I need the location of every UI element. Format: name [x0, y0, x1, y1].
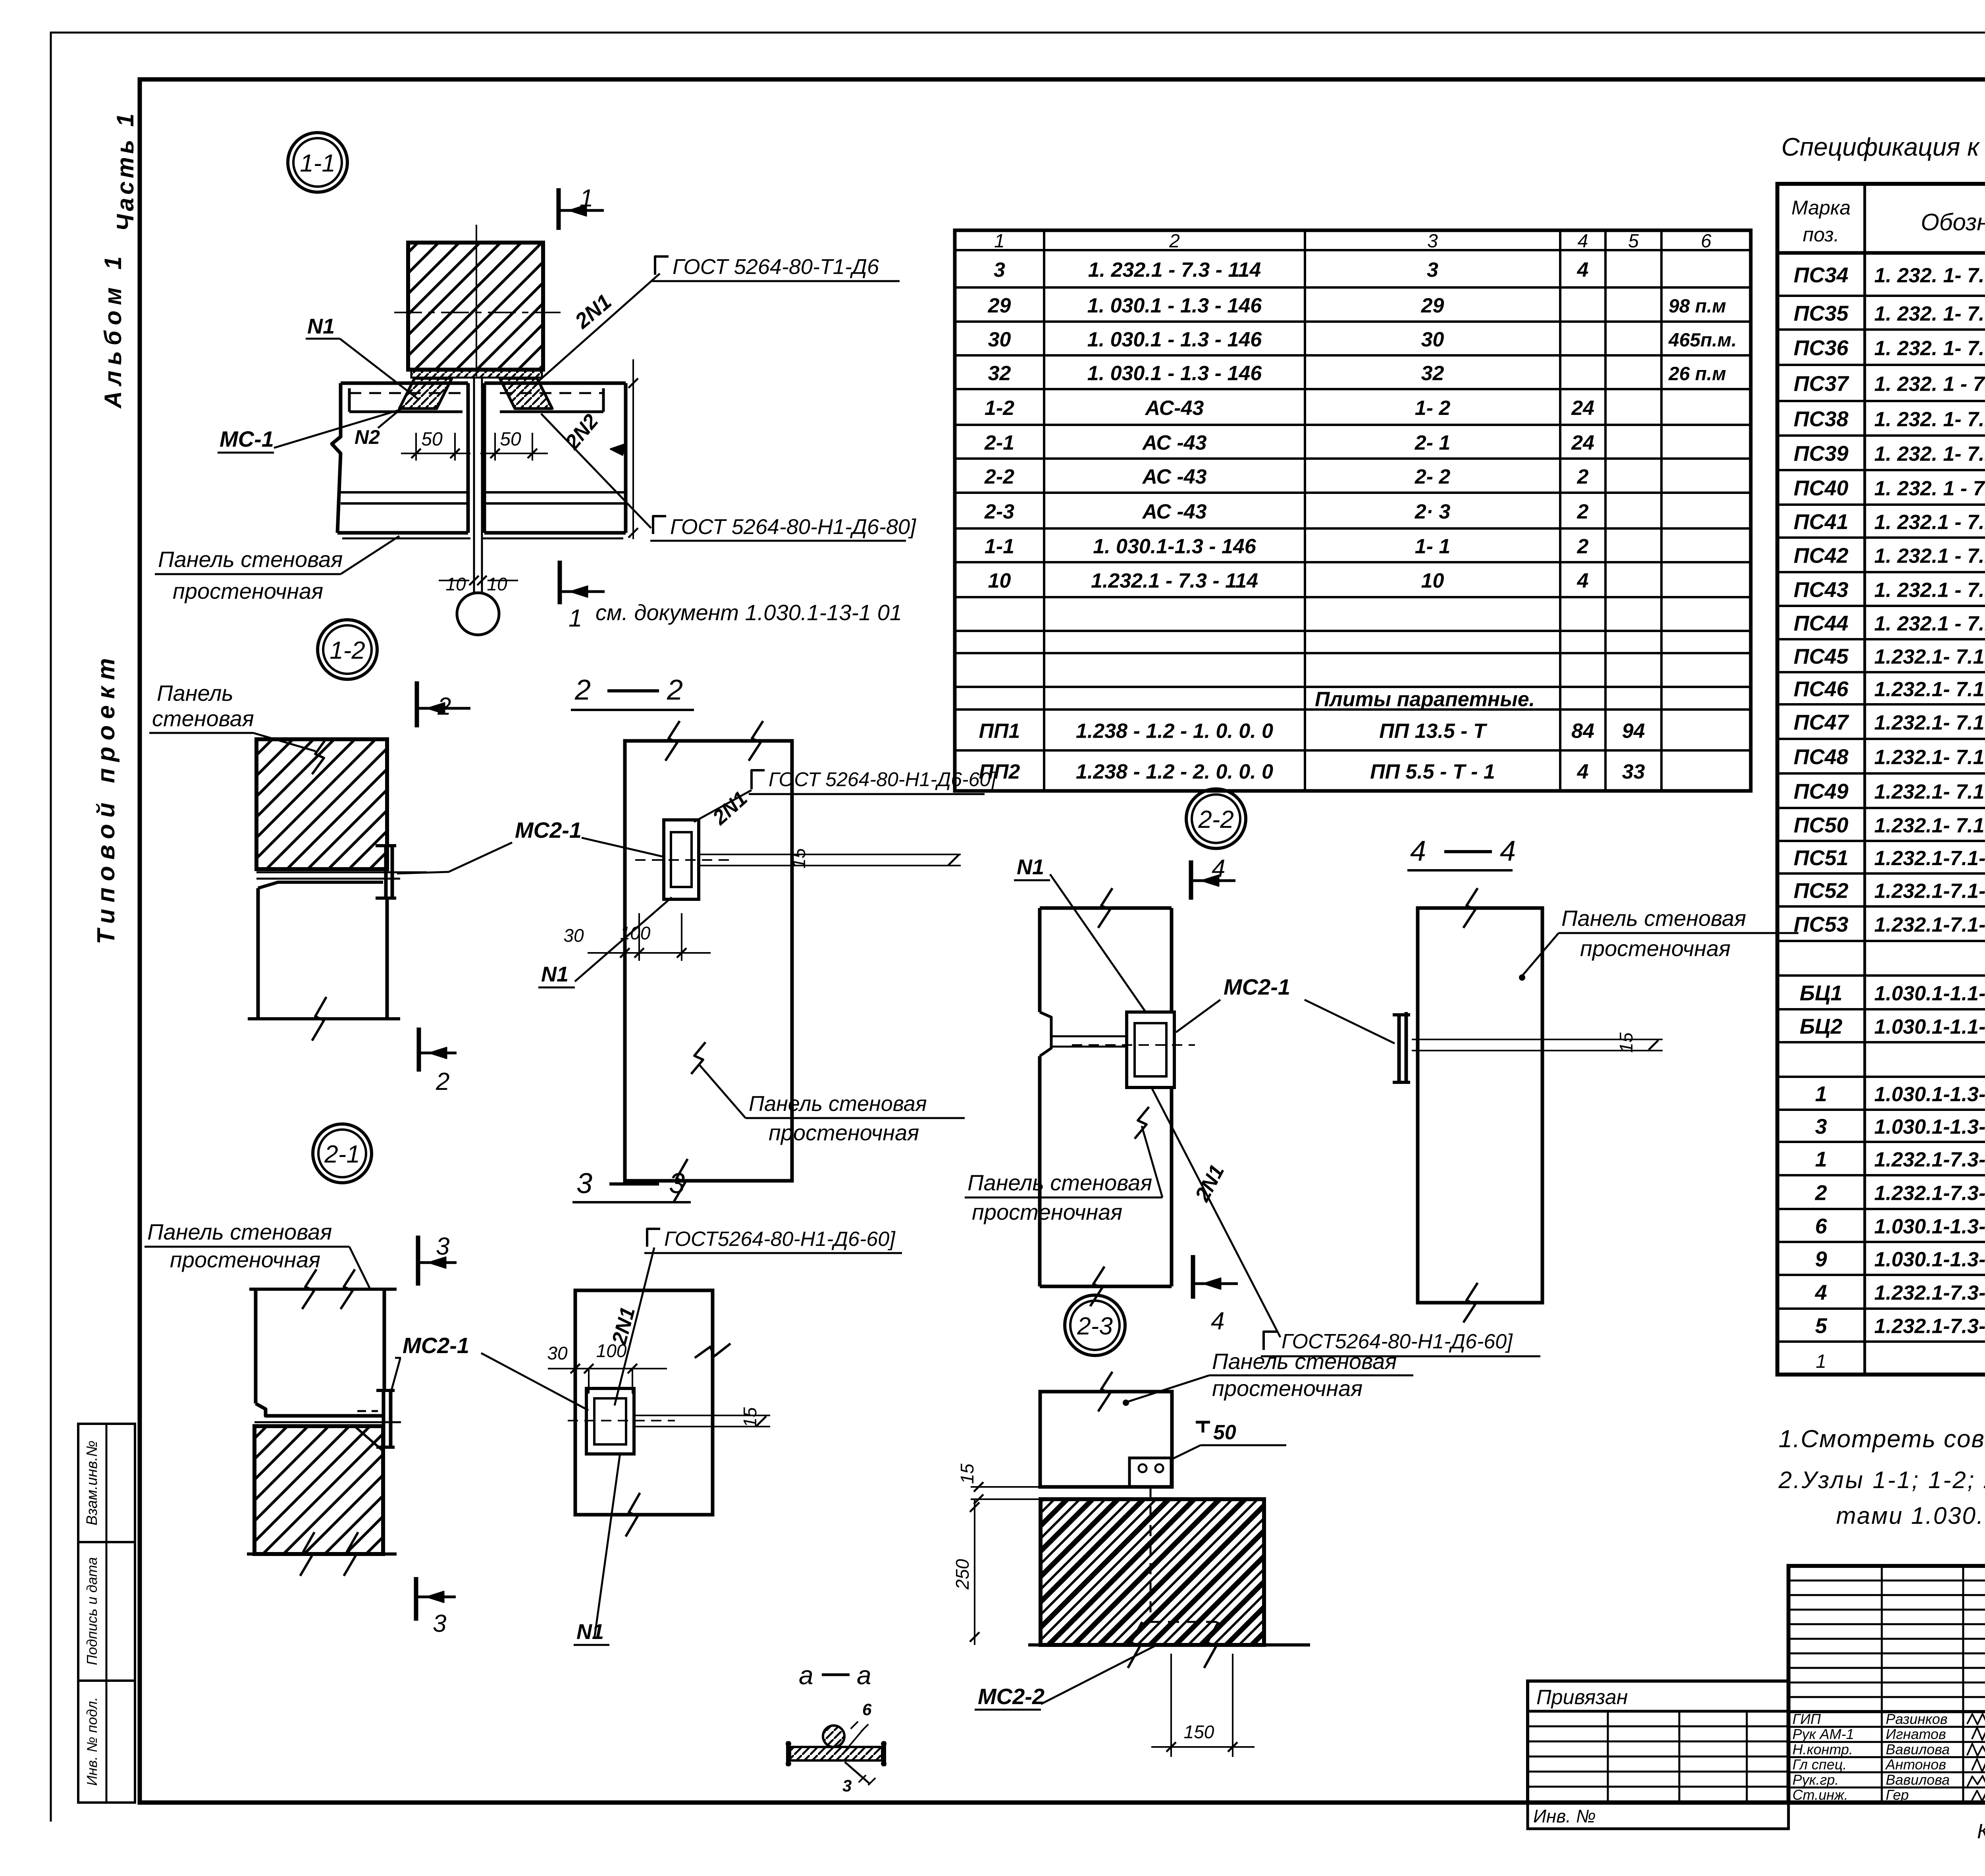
node 1-1 weld insert left	[399, 378, 452, 409]
margin text Часть 1	[112, 110, 139, 231]
svg-text:Н.контр.: Н.контр.	[1792, 1741, 1853, 1757]
svg-text:простеночная: простеночная	[1580, 936, 1731, 961]
title block left grid	[1788, 1566, 1985, 1712]
middle table data text	[979, 258, 1737, 783]
label 2N1 node 2-1	[607, 1305, 640, 1348]
node 1-1 joint lines and detail circle	[457, 378, 499, 635]
svg-text:100: 100	[596, 1340, 627, 1361]
section title а-а	[799, 1660, 871, 1690]
spec table data text	[1794, 263, 1985, 1338]
svg-text:Разинков: Разинков	[1886, 1711, 1948, 1727]
svg-text:ПС51: ПС51	[1794, 846, 1848, 870]
svg-text:5: 5	[1628, 231, 1639, 252]
svg-text:Панель стеновая: Панель стеновая	[1212, 1349, 1397, 1374]
svg-text:2- 2: 2- 2	[1415, 465, 1451, 488]
node 2-1 section panel	[575, 1290, 730, 1537]
svg-text:1.232.1- 7.1-103-05: 1.232.1- 7.1-103-05	[1874, 711, 1985, 735]
svg-text:15: 15	[788, 848, 809, 869]
svg-text:ПС48: ПС48	[1794, 745, 1848, 769]
spec table header	[1791, 197, 1985, 247]
note 2	[1778, 1467, 1985, 1529]
svg-text:15: 15	[1616, 1032, 1636, 1053]
title block frame	[1788, 1566, 1985, 1803]
svg-text:1. 232. 1- 7. 1-104-04: 1. 232. 1- 7. 1-104-04	[1874, 303, 1985, 326]
svg-text:3: 3	[1427, 258, 1438, 281]
svg-text:1.232.1-7.3-1 14: 1.232.1-7.3-1 14	[1874, 1182, 1985, 1205]
node 1-2 joint lines	[256, 872, 427, 879]
svg-text:4: 4	[1410, 835, 1426, 867]
svg-text:2: 2	[1577, 500, 1589, 523]
svg-text:1.232.1- 7.1-101-05: 1.232.1- 7.1-101-05	[1874, 814, 1985, 837]
label Панель стеновая простеночная node 2-1	[145, 1219, 371, 1290]
node 2-3 anchor plate with bolts	[1129, 1458, 1171, 1487]
svg-text:1-2: 1-2	[985, 397, 1014, 420]
section title 2-2	[571, 674, 694, 710]
svg-text:9: 9	[1815, 1247, 1827, 1271]
svg-text:1: 1	[1815, 1147, 1827, 1171]
svg-text:29: 29	[988, 294, 1011, 317]
dimension 50 left	[401, 429, 470, 461]
label N2	[355, 408, 402, 448]
node 1-1 weld insert right	[500, 378, 552, 409]
svg-text:1- 1: 1- 1	[1415, 535, 1451, 558]
svg-text:ПС41: ПС41	[1794, 510, 1848, 534]
svg-text:1.Смотреть совместно с лист: 1.Смотреть совместно с листами АС-51,52.	[1779, 1425, 1985, 1453]
svg-text:АС -43: АС -43	[1141, 500, 1206, 523]
svg-text:ПП 13.5 - Т: ПП 13.5 - Т	[1379, 720, 1488, 743]
svg-text:2: 2	[437, 693, 451, 720]
label 2N1 node 1-2	[708, 787, 752, 830]
label МС-1	[218, 410, 400, 453]
svg-text:4: 4	[1211, 1307, 1224, 1335]
svg-text:1.232.1-7.1-131-02: 1.232.1-7.1-131-02	[1874, 914, 1985, 937]
svg-text:Ст.инж.: Ст.инж.	[1792, 1787, 1848, 1803]
svg-text:15: 15	[740, 1407, 760, 1428]
label МС2-1 node 2-2	[1176, 974, 1395, 1043]
label Панель стеновая простеночная node 1-1	[155, 536, 399, 603]
svg-text:тами 1.030.1-1; 3-101ПЗ и: тами 1.030.1-1; 3-101ПЗ и 1.232.1- 7.3-1…	[1836, 1502, 1985, 1529]
node 2-3 floor slab hatched	[1028, 1499, 1310, 1668]
Инв.№ strip	[1528, 1803, 1788, 1829]
svg-text:МС2-1: МС2-1	[1224, 974, 1290, 999]
svg-text:Панель стеновая: Панель стеновая	[967, 1170, 1152, 1195]
svg-text:15: 15	[957, 1463, 977, 1484]
section title 3-3	[572, 1168, 691, 1202]
node 1-1 left wall panel	[332, 383, 470, 538]
node 1-1 lintel section hatched	[408, 243, 543, 370]
svg-text:2-2: 2-2	[1198, 806, 1234, 833]
label Панель стеновая простеночная node 2-2 left	[965, 1107, 1162, 1224]
svg-text:1.232.1- 7.1-101-08: 1.232.1- 7.1-101-08	[1874, 781, 1985, 804]
svg-text:2.Узлы 1-1; 1-2; 2-1; 2-2; 2-3: 2.Узлы 1-1; 1-2; 2-1; 2-2; 2-3 рассматри…	[1778, 1467, 1985, 1493]
svg-text:84: 84	[1571, 720, 1594, 743]
svg-text:465п.м.: 465п.м.	[1668, 330, 1737, 351]
svg-text:6: 6	[1701, 231, 1711, 252]
svg-text:1. 030.1 - 1.3 - 146: 1. 030.1 - 1.3 - 146	[1087, 294, 1262, 317]
svg-text:см. документ 1.030.1-13-1 01: см. документ 1.030.1-13-1 01	[595, 600, 902, 625]
node 2-3 anchor dashed	[1151, 1487, 1217, 1622]
svg-text:26 п.м: 26 п.м	[1668, 364, 1726, 385]
svg-text:1. 232. 1- 7. 1-104-04: 1. 232. 1- 7. 1-104-04	[1874, 264, 1985, 287]
node 1-1 right dim extension	[628, 359, 638, 539]
svg-text:1.238 - 1.2 - 2. 0. 0. 0: 1.238 - 1.2 - 2. 0. 0. 0	[1076, 760, 1273, 783]
svg-text:ПС52: ПС52	[1794, 879, 1848, 903]
section mark 2 top	[417, 681, 470, 727]
svg-text:1: 1	[580, 185, 593, 212]
svg-text:50: 50	[1213, 1421, 1236, 1444]
svg-text:1.030.1-1.1-178: 1.030.1-1.1-178	[1874, 982, 1985, 1005]
node 1-2 hatched panel section	[256, 739, 387, 869]
svg-text:ПС35: ПС35	[1794, 302, 1849, 326]
svg-text:1-2: 1-2	[330, 637, 365, 664]
node 2-3 upper panel	[1040, 1372, 1172, 1487]
weld size marks a-a	[842, 1700, 875, 1795]
node 1-2 connection plate	[376, 844, 396, 900]
svg-text:50: 50	[421, 429, 443, 450]
detail bubble 2-2	[1186, 789, 1246, 848]
node 1-1 mortar strip	[411, 370, 542, 378]
node 2-2 joint gap 15	[1412, 1032, 1663, 1053]
svg-text:1. 030.1-1.3 - 146: 1. 030.1-1.3 - 146	[1093, 535, 1257, 558]
svg-text:2-1: 2-1	[984, 432, 1014, 455]
svg-text:30: 30	[547, 1343, 568, 1363]
label 2N2 with arrow	[561, 410, 626, 455]
node 1-2 joint gap 15	[699, 848, 961, 869]
svg-text:Марка: Марка	[1791, 197, 1850, 219]
svg-text:ПП1: ПП1	[979, 720, 1020, 743]
svg-text:3: 3	[436, 1233, 449, 1260]
node 1-2 lower wall panel	[248, 882, 400, 1041]
svg-text:1.232.1-7.1-103-05: 1.232.1-7.1-103-05	[1874, 847, 1985, 870]
svg-text:1.232.1-7.1-103-05: 1.232.1-7.1-103-05	[1874, 880, 1985, 903]
svg-text:4: 4	[1815, 1281, 1827, 1305]
label МС2-2 node 2-3 leader	[0, 0, 0, 0]
svg-text:ПС44: ПС44	[1794, 611, 1848, 635]
svg-text:МС2-2: МС2-2	[978, 1684, 1045, 1709]
svg-text:1. 232. 1- 7.1- 104-04: 1. 232. 1- 7.1- 104-04	[1874, 443, 1985, 466]
svg-text:Антонов: Антонов	[1885, 1756, 1946, 1773]
svg-text:4: 4	[1577, 569, 1589, 592]
svg-text:Панель стеновая: Панель стеновая	[158, 547, 343, 572]
title block signature rows	[1788, 1711, 1985, 1803]
svg-text:1.232.1-7.3-1 14: 1.232.1-7.3-1 14	[1874, 1148, 1985, 1171]
svg-text:250: 250	[952, 1559, 973, 1590]
svg-text:1. 232. 1- 7.1- 104-04: 1. 232. 1- 7.1- 104-04	[1874, 408, 1985, 431]
svg-text:ПС42: ПС42	[1794, 544, 1848, 568]
svg-text:N1: N1	[541, 962, 569, 986]
label 2N1 node 2-2 with leader	[1152, 1089, 1280, 1337]
svg-text:простеночная: простеночная	[173, 578, 323, 603]
svg-text:1. 232.1 - 7.1- 1.30-02: 1. 232.1 - 7.1- 1.30-02	[1874, 612, 1985, 635]
svg-text:2: 2	[1169, 231, 1180, 252]
svg-text:Гер: Гер	[1886, 1787, 1909, 1803]
svg-text:1: 1	[1815, 1082, 1827, 1106]
label Панель стеновая простеночная node 2-2 right	[1519, 906, 1798, 981]
svg-text:ПС40: ПС40	[1794, 476, 1848, 500]
svg-text:3: 3	[1427, 231, 1438, 252]
svg-text:2· 3: 2· 3	[1415, 500, 1451, 523]
svg-text:Рук.гр.: Рук.гр.	[1792, 1772, 1839, 1788]
svg-text:2: 2	[1815, 1181, 1827, 1205]
margin stamp box Подпись и дата	[78, 1542, 135, 1681]
label Панель стеновая простеночная node 2-3	[1123, 1349, 1413, 1406]
svg-text:1. 232.1 - 7.1- 104-04: 1. 232.1 - 7.1- 104-04	[1874, 545, 1985, 568]
svg-text:АС -43: АС -43	[1141, 432, 1206, 455]
node 2-3 gap 15 dimension	[957, 1463, 1056, 1504]
svg-text:поз.: поз.	[1803, 224, 1839, 246]
svg-text:1- 2: 1- 2	[1415, 397, 1451, 420]
node 1-2 plate in section	[635, 820, 734, 899]
margin stamp box Инв.№ подл.	[78, 1681, 135, 1803]
svg-text:10: 10	[487, 574, 507, 594]
svg-text:Вавилова: Вавилова	[1886, 1772, 1950, 1788]
svg-text:30: 30	[988, 328, 1011, 351]
label МС2-1 node 2-1	[390, 1333, 588, 1410]
svg-text:N1: N1	[1017, 855, 1044, 879]
svg-text:Рук АМ-1: Рук АМ-1	[1792, 1726, 1854, 1742]
svg-text:24: 24	[1571, 432, 1594, 455]
node 2-2 left panel	[1040, 888, 1172, 1306]
svg-text:10: 10	[1421, 569, 1444, 592]
svg-text:4: 4	[1577, 258, 1589, 281]
svg-text:1. 232.1 - 7.1-102-02: 1. 232.1 - 7.1-102-02	[1874, 511, 1985, 534]
svg-text:ПС46: ПС46	[1794, 677, 1849, 701]
svg-text:Игнатов: Игнатов	[1886, 1726, 1946, 1742]
spec table title	[1781, 133, 1985, 185]
svg-text:1. 232. 1- 7. 1-104-04: 1. 232. 1- 7. 1-104-04	[1874, 337, 1985, 360]
svg-text:Привязан: Привязан	[1536, 1686, 1628, 1709]
note 1	[1779, 1425, 1985, 1453]
note см. документ	[595, 600, 902, 625]
svg-text:30: 30	[563, 925, 584, 946]
svg-text:ГИП: ГИП	[1792, 1711, 1821, 1727]
spec table grid	[1777, 184, 1985, 1375]
svg-text:5: 5	[1815, 1314, 1827, 1338]
section mark 3 bottom	[416, 1577, 456, 1637]
svg-text:ПС34: ПС34	[1794, 263, 1848, 287]
margin stamp box Взам.инв.№	[78, 1424, 135, 1542]
label N1 node 2-2	[1014, 855, 1147, 1013]
svg-text:98 п.м: 98 п.м	[1669, 296, 1726, 317]
callout ГОСТ 5264-80-Т1-Д6	[652, 255, 900, 281]
node 1-2 dimension 30 100	[563, 913, 711, 961]
svg-text:32: 32	[1421, 362, 1444, 385]
svg-text:Плиты парапетные.: Плиты парапетные.	[1315, 688, 1535, 711]
svg-text:МС-1: МС-1	[220, 426, 274, 451]
svg-text:а: а	[799, 1660, 813, 1690]
node 2-1 upper wall panel	[249, 1269, 397, 1416]
section title 4-4	[1407, 835, 1516, 870]
svg-text:2-3: 2-3	[984, 500, 1014, 523]
svg-text:Подпись и дата: Подпись и дата	[84, 1557, 100, 1665]
section mark 3 top	[418, 1233, 457, 1286]
section mark 2 bottom	[419, 1028, 457, 1095]
svg-text:3: 3	[433, 1610, 446, 1637]
svg-text:2: 2	[574, 674, 591, 706]
svg-text:ГОСТ 5264-80-Н1-Д6-60]: ГОСТ 5264-80-Н1-Д6-60]	[769, 768, 996, 791]
svg-text:ПС53: ПС53	[1794, 913, 1848, 937]
svg-text:1.030.1-1.3-1 46: 1.030.1-1.3-1 46	[1874, 1116, 1985, 1139]
svg-text:БЦ2: БЦ2	[1800, 1015, 1842, 1039]
svg-text:Инв. № подл.: Инв. № подл.	[84, 1697, 100, 1785]
node 1-2 section panel	[625, 721, 792, 1203]
svg-text:1: 1	[994, 231, 1005, 252]
svg-text:1.238 - 1.2 - 1. 0. 0. 0: 1.238 - 1.2 - 1. 0. 0. 0	[1076, 720, 1273, 743]
callout ГОСТ5264-80-Н1-Д6-60 node 2-2	[1261, 1330, 1540, 1356]
footer Копировал	[1977, 1820, 1985, 1843]
svg-text:1. 232. 1 - 7.1-104-04: 1. 232. 1 - 7.1-104-04	[1874, 373, 1985, 396]
svg-text:24: 24	[1571, 397, 1594, 420]
svg-text:1.232.1 - 7.3 - 114: 1.232.1 - 7.3 - 114	[1091, 569, 1258, 592]
node 2-1 joint line	[254, 1421, 401, 1423]
svg-text:ПС39: ПС39	[1794, 442, 1848, 466]
svg-text:6: 6	[1815, 1215, 1827, 1238]
svg-text:Обозначение: Обозначение	[1921, 209, 1985, 235]
middle table header row 1-6	[994, 231, 1711, 252]
svg-text:Типовой проект: Типовой проект	[93, 652, 120, 945]
svg-text:6: 6	[862, 1700, 872, 1719]
svg-text:2-1: 2-1	[324, 1141, 360, 1168]
svg-text:2: 2	[1577, 535, 1589, 558]
svg-text:Часть 1: Часть 1	[112, 110, 139, 231]
node 1-1 centerlines	[394, 225, 561, 376]
svg-text:Гл спец.: Гл спец.	[1792, 1756, 1847, 1773]
svg-text:1.232.1- 7.1-103-05: 1.232.1- 7.1-103-05	[1874, 746, 1985, 769]
svg-text:ГОСТ 5264-80-Т1-Д6: ГОСТ 5264-80-Т1-Д6	[673, 255, 879, 279]
svg-text:N1: N1	[576, 1620, 604, 1644]
svg-text:простеночная: простеночная	[170, 1247, 320, 1272]
svg-text:Взам.инв.№: Взам.инв.№	[84, 1440, 100, 1525]
svg-text:1-1: 1-1	[985, 535, 1014, 558]
margin text Типовой проект	[93, 652, 120, 945]
svg-text:1.232.1- 7.1-103-05: 1.232.1- 7.1-103-05	[1874, 678, 1985, 701]
detail bubble 2-1	[313, 1124, 372, 1183]
svg-text:4: 4	[1578, 231, 1588, 252]
svg-text:1.232.1-7.3-1 14: 1.232.1-7.3-1 14	[1874, 1315, 1985, 1338]
svg-text:Панель стеновая: Панель стеновая	[1561, 906, 1746, 931]
node 1-1 right wall panel	[482, 383, 626, 538]
svg-text:2: 2	[667, 674, 683, 706]
label N1 node 2-1	[574, 1453, 620, 1645]
margin text Альбом 1	[100, 251, 126, 409]
svg-text:4: 4	[1500, 835, 1516, 867]
node 2-1 dimension 30 100	[547, 1340, 667, 1394]
label МС2-1 node 1-2	[397, 817, 664, 873]
svg-text:МС2-1: МС2-1	[403, 1333, 469, 1358]
svg-text:Альбом 1: Альбом 1	[100, 251, 126, 409]
svg-text:ГОСТ5264-80-Н1-Д6-60]: ГОСТ5264-80-Н1-Д6-60]	[664, 1228, 896, 1251]
svg-text:2: 2	[436, 1068, 449, 1095]
label N1 node 1-1	[306, 314, 418, 399]
svg-text:ПС43: ПС43	[1794, 578, 1848, 602]
node 2-1 hatched panel section	[247, 1426, 397, 1576]
svg-text:Панель: Панель	[157, 681, 233, 706]
svg-text:1.232.1-7.3-1 14: 1.232.1-7.3-1 14	[1874, 1282, 1985, 1305]
svg-text:2-3: 2-3	[1077, 1313, 1113, 1340]
svg-text:3: 3	[842, 1776, 852, 1795]
svg-text:1.232.1- 7.1- 103-05: 1.232.1- 7.1- 103-05	[1874, 646, 1985, 669]
svg-text:94: 94	[1622, 720, 1645, 743]
svg-text:Спецификация к схемам располож: Спецификация к схемам расположения стено…	[1781, 133, 1985, 161]
detail bubble 2-3	[1065, 1295, 1125, 1355]
detail bubble 1-1	[288, 133, 347, 192]
svg-text:1. 232.1 - 7.3 - 114: 1. 232.1 - 7.3 - 114	[1088, 258, 1261, 281]
svg-text:2- 1: 2- 1	[1415, 432, 1451, 455]
svg-text:ГОСТ 5264-80-Н1-Д6-80]: ГОСТ 5264-80-Н1-Д6-80]	[670, 515, 917, 539]
svg-text:ПС45: ПС45	[1794, 645, 1849, 669]
svg-text:1: 1	[1816, 1351, 1827, 1372]
svg-text:50: 50	[500, 429, 521, 450]
svg-text:1-1: 1-1	[300, 150, 335, 177]
svg-text:ПС47: ПС47	[1794, 711, 1850, 735]
svg-text:Вавилова: Вавилова	[1886, 1741, 1950, 1757]
svg-text:1. 232. 1 - 7.1-104-04: 1. 232. 1 - 7.1-104-04	[1874, 477, 1985, 500]
middle table grid	[955, 230, 1751, 791]
svg-text:Копировал: Рулькова: Копировал: Рулькова	[1977, 1820, 1985, 1843]
svg-text:Панель стеновая: Панель стеновая	[147, 1219, 332, 1244]
svg-text:29: 29	[1421, 294, 1444, 317]
node 2-2 plate in section	[1072, 1012, 1195, 1087]
section mark 4 top	[1191, 855, 1235, 900]
svg-text:ПС36: ПС36	[1794, 336, 1849, 360]
svg-text:1: 1	[569, 605, 582, 632]
svg-text:ПС50: ПС50	[1794, 814, 1848, 837]
svg-text:БЦ1: БЦ1	[1800, 981, 1842, 1005]
node 2-1 joint gap 15	[634, 1407, 770, 1428]
node 2-2 section panel right	[1418, 888, 1542, 1323]
section mark 4 bottom	[1193, 1255, 1238, 1335]
svg-text:МС2-1: МС2-1	[515, 817, 582, 843]
title block signatures squiggles	[1967, 1713, 1985, 1802]
svg-text:простеночная: простеночная	[972, 1199, 1122, 1224]
dimension 50 right	[480, 429, 548, 461]
svg-text:10: 10	[988, 569, 1011, 592]
svg-text:33: 33	[1622, 760, 1645, 783]
svg-text:ПП 5.5 - Т - 1: ПП 5.5 - Т - 1	[1370, 760, 1495, 783]
label МС2-2	[975, 1646, 1155, 1710]
svg-text:4: 4	[1577, 760, 1589, 783]
svg-text:Инв. №: Инв. №	[1533, 1806, 1596, 1826]
label 2N1 with leader	[537, 274, 660, 382]
svg-text:ПС37: ПС37	[1794, 372, 1850, 396]
svg-text:1.030.1-1.1-178: 1.030.1-1.1-178	[1874, 1016, 1985, 1039]
callout ГОСТ5264-80-Н1-Д6-60 node 2-1	[615, 1228, 902, 1406]
label N1 node 1-2	[538, 897, 672, 987]
dimension 250	[952, 1499, 979, 1645]
svg-text:1. 030.1 - 1.3 - 146: 1. 030.1 - 1.3 - 146	[1087, 328, 1262, 351]
svg-text:150: 150	[1184, 1722, 1214, 1742]
svg-text:2-2: 2-2	[984, 465, 1014, 488]
svg-text:30: 30	[1421, 328, 1444, 351]
svg-text:3: 3	[576, 1168, 592, 1199]
svg-text:стеновая: стеновая	[152, 706, 254, 731]
svg-text:32: 32	[988, 362, 1011, 385]
svg-text:3: 3	[1815, 1115, 1827, 1139]
detail a-a bar with welds	[786, 1726, 887, 1783]
label Панель стеновая node 1-2	[149, 681, 326, 774]
node 2-1 plate in section	[568, 1388, 675, 1454]
svg-text:простеночная: простеночная	[1212, 1376, 1363, 1401]
svg-text:ПС49: ПС49	[1794, 780, 1848, 804]
dimension 10 10 joint	[439, 574, 518, 594]
svg-text:2: 2	[1577, 465, 1589, 488]
spec table footer row	[1816, 1351, 1985, 1372]
svg-text:Панель стеновая: Панель стеновая	[749, 1092, 927, 1116]
svg-text:100: 100	[620, 923, 651, 943]
svg-text:1. 030.1 - 1.3 - 146: 1. 030.1 - 1.3 - 146	[1087, 362, 1262, 385]
svg-text:1.030.1-1.3-1 46: 1.030.1-1.3-1 46	[1874, 1215, 1985, 1238]
svg-text:10: 10	[445, 574, 466, 594]
